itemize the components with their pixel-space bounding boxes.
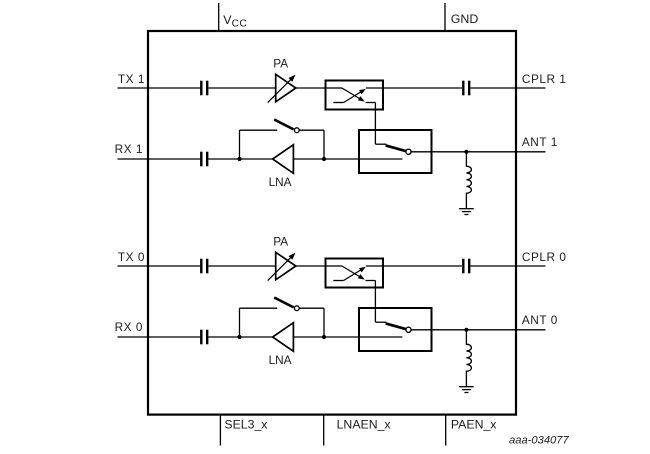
antenna switch block (ch 1) bbox=[359, 130, 432, 173]
coupler coupled-port stub (ch 1) bbox=[333, 102, 343, 104]
GND pin wire bbox=[444, 3, 446, 31]
svg-text:ANT 1: ANT 1 bbox=[522, 135, 558, 149]
svg-text:TX 1: TX 1 bbox=[118, 72, 145, 86]
figure id aaa-034077 bbox=[509, 434, 570, 446]
wire LNA to node (ch 0) bbox=[293, 336, 324, 338]
capacitor (RX 1 DC block) bbox=[201, 152, 207, 167]
VCC pin wire bbox=[218, 3, 220, 31]
TX 1 pin wire bbox=[118, 87, 149, 89]
node LNA input junction (ch 0) bbox=[322, 335, 326, 339]
svg-text:PAEN_x: PAEN_x bbox=[451, 418, 497, 432]
TX 1 label bbox=[118, 72, 145, 86]
coupler coupled-port stub (ch 0) bbox=[333, 280, 343, 282]
LNA amplifier (ch 1) bbox=[273, 145, 294, 174]
LNA amplifier (ch 0) bbox=[273, 323, 294, 352]
bypass branch right wire (ch 1) bbox=[299, 130, 324, 159]
coupler output wire (ch 1) bbox=[366, 87, 382, 89]
svg-text:CPLR 0: CPLR 0 bbox=[522, 250, 567, 264]
svg-text:RX 1: RX 1 bbox=[115, 142, 143, 156]
wire node to LNA (ch 0) bbox=[240, 336, 273, 338]
svg-text:SEL3_x: SEL3_x bbox=[224, 418, 268, 432]
SEL3_x label bbox=[224, 418, 268, 432]
CPLR 0 pin wire bbox=[516, 265, 546, 267]
ANT 0 pin wire bbox=[516, 329, 546, 331]
PA amplifier (ch 0) bbox=[268, 252, 296, 280]
bypass branch left wire (ch 1) bbox=[240, 130, 278, 159]
wire LNA to node (ch 1) bbox=[293, 158, 324, 160]
switch contact circle (ch 1) bbox=[406, 149, 411, 154]
wire switch to ANT 0 pin bbox=[411, 329, 516, 331]
svg-text:LNAEN_x: LNAEN_x bbox=[337, 418, 392, 432]
ANT 1 label bbox=[522, 135, 558, 149]
coupler crossover block (ch 0) bbox=[326, 259, 384, 288]
bypass switch contact circle (ch 1) bbox=[294, 128, 299, 133]
RX 0 label bbox=[115, 320, 143, 334]
wire RX into antenna switch (ch 0) bbox=[324, 336, 402, 338]
wire cap to CPLR 0 pin bbox=[470, 265, 516, 267]
svg-text:RX 0: RX 0 bbox=[115, 320, 143, 334]
svg-text:TX 0: TX 0 bbox=[118, 250, 145, 264]
switch lever (ch 1) bbox=[386, 145, 406, 151]
node LNA output junction (ch 1) bbox=[237, 157, 241, 161]
switch pole jog (ch 1) bbox=[375, 143, 386, 145]
wire switch to ANT 1 pin bbox=[411, 151, 516, 153]
RX 1 label bbox=[115, 142, 143, 156]
wire coupler to cap (ch 1) bbox=[382, 87, 462, 89]
svg-text:LNA: LNA bbox=[269, 175, 292, 189]
PA label (ch 0) bbox=[273, 235, 288, 249]
wire coupled port down (ch 0) bbox=[366, 281, 376, 323]
wire coupler to cap (ch 0) bbox=[382, 265, 462, 267]
TX 0 label bbox=[118, 250, 145, 264]
coupler input wire (ch 1) bbox=[327, 87, 342, 89]
ANT 1 pin wire bbox=[516, 151, 546, 153]
wire TX 0 to cap bbox=[148, 265, 200, 267]
switch contact circle (ch 0) bbox=[406, 327, 411, 332]
svg-text:PA: PA bbox=[273, 235, 288, 249]
svg-text:PA: PA bbox=[273, 57, 288, 71]
svg-text:aaa-034077: aaa-034077 bbox=[509, 434, 570, 446]
coupler crossover block (ch 1) bbox=[326, 81, 384, 110]
bypass switch lever (ch 0) bbox=[274, 298, 293, 308]
wire cap to LNA output node (ch 1) bbox=[208, 158, 239, 160]
PAEN_x label bbox=[451, 418, 497, 432]
wire cap to CPLR 1 pin bbox=[470, 87, 516, 89]
wire cap to LNA output node (ch 0) bbox=[208, 336, 239, 338]
TX 0 pin wire bbox=[118, 265, 149, 267]
CPLR 1 label bbox=[522, 72, 567, 86]
svg-text:ANT 0: ANT 0 bbox=[522, 313, 558, 327]
wire PA to coupler (ch 1) bbox=[296, 87, 327, 89]
ANT 0 label bbox=[522, 313, 558, 327]
svg-text:CC: CC bbox=[232, 18, 248, 29]
PAEN_x pin wire bbox=[445, 414, 447, 446]
inductor to ground (ch 0) bbox=[466, 330, 471, 387]
antenna switch block (ch 0) bbox=[359, 308, 432, 351]
SEL3_x pin wire bbox=[219, 414, 221, 446]
switch lever (ch 0) bbox=[386, 323, 406, 329]
wire TX 1 to cap bbox=[148, 87, 200, 89]
node ANT 1 junction bbox=[464, 150, 468, 154]
capacitor (TX 1 DC block) bbox=[201, 81, 207, 96]
wire RX 0 to cap bbox=[148, 336, 200, 338]
coupler through diagonal with arrow (ch 1) bbox=[342, 88, 365, 102]
svg-text:LNA: LNA bbox=[269, 353, 292, 367]
capacitor (TX 0 DC block) bbox=[201, 259, 207, 274]
PA amplifier (ch 1) bbox=[268, 74, 296, 102]
wire PA to coupler (ch 0) bbox=[296, 265, 327, 267]
GND label bbox=[451, 12, 479, 26]
capacitor (CPLR 0 DC block) bbox=[463, 259, 469, 274]
capacitor (RX 0 DC block) bbox=[201, 330, 207, 345]
inductor to ground (ch 1) bbox=[466, 152, 471, 209]
capacitor (CPLR 1 DC block) bbox=[463, 81, 469, 96]
node ANT 0 junction bbox=[464, 328, 468, 332]
LNA label (ch 0) bbox=[269, 353, 292, 367]
svg-text:CPLR 1: CPLR 1 bbox=[522, 72, 567, 86]
wire cap to PA (ch 0) bbox=[208, 265, 275, 267]
LNA label (ch 1) bbox=[269, 175, 292, 189]
RX 0 pin wire bbox=[118, 336, 149, 338]
RX 1 pin wire bbox=[118, 158, 149, 160]
CPLR 1 pin wire bbox=[516, 87, 546, 89]
wire node to LNA (ch 1) bbox=[240, 158, 273, 160]
PA label (ch 1) bbox=[273, 57, 288, 71]
wire coupled port down (ch 1) bbox=[366, 103, 376, 145]
LNAEN_x label bbox=[337, 418, 392, 432]
coupler coupled diagonal with arrow (ch 1) bbox=[344, 89, 366, 103]
ground symbol (ch 1) bbox=[459, 209, 474, 215]
LNAEN_x pin wire bbox=[323, 414, 325, 446]
wire RX 1 to cap bbox=[148, 158, 200, 160]
coupler input wire (ch 0) bbox=[327, 265, 342, 267]
ground symbol (ch 0) bbox=[459, 387, 474, 393]
VCC label bbox=[223, 13, 247, 30]
bypass switch lever (ch 1) bbox=[274, 120, 293, 130]
CPLR 0 label bbox=[522, 250, 567, 264]
node LNA input junction (ch 1) bbox=[322, 157, 326, 161]
coupler coupled diagonal with arrow (ch 0) bbox=[344, 267, 366, 281]
coupler output wire (ch 0) bbox=[366, 265, 382, 267]
wire cap to PA (ch 1) bbox=[208, 87, 275, 89]
bypass switch contact circle (ch 0) bbox=[294, 306, 299, 311]
wire RX into antenna switch (ch 1) bbox=[324, 158, 402, 160]
node LNA output junction (ch 0) bbox=[237, 335, 241, 339]
IC block outline bbox=[148, 31, 516, 415]
bypass branch right wire (ch 0) bbox=[299, 308, 324, 337]
svg-text:GND: GND bbox=[451, 12, 479, 26]
coupler through diagonal with arrow (ch 0) bbox=[342, 266, 365, 280]
bypass branch left wire (ch 0) bbox=[240, 308, 278, 337]
switch pole jog (ch 0) bbox=[375, 321, 386, 323]
